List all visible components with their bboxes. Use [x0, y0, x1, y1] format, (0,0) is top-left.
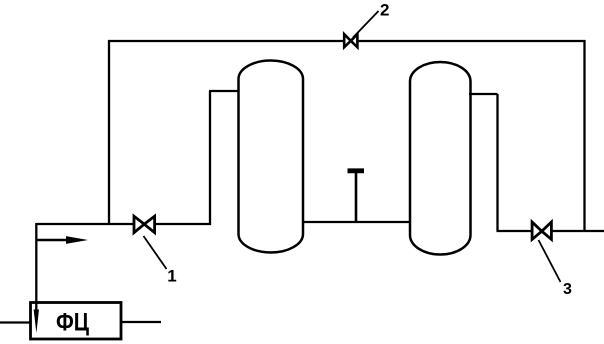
wire: line between vessels	[302, 221, 411, 223]
leader line for label 3	[539, 240, 561, 282]
arrow: flow direction arrow to the right	[36, 236, 88, 244]
component: FC (filter-centrifuge) box	[31, 303, 122, 340]
valve 1	[134, 216, 155, 232]
wire: right bypass vertical line	[583, 40, 585, 231]
wire: top bypass horizontal line	[108, 40, 586, 42]
wire: riser pipe into left vessel	[209, 91, 240, 225]
svg-text:ФЦ: ФЦ	[56, 309, 90, 337]
svg-text:3: 3	[563, 281, 572, 298]
vessel: right adsorber column	[410, 62, 471, 255]
wire: line right of FC box	[121, 321, 161, 323]
leader line for label 1	[144, 236, 167, 269]
svg-text:2: 2	[380, 0, 389, 19]
svg-text:1: 1	[167, 266, 176, 285]
valve 2	[344, 34, 357, 47]
arrow: down arrow into FC box	[34, 302, 39, 333]
wire: feed horizontal line through valve 1	[36, 223, 211, 225]
leader line for label 2	[353, 11, 379, 38]
valve 3	[532, 222, 551, 239]
vessel: left adsorber column	[239, 61, 304, 253]
fitting: T-shaped stub between vessels	[348, 170, 365, 222]
wire: bottom right outlet line through valve 3	[497, 230, 604, 232]
wire: feed vertical drop to FC box	[35, 223, 37, 312]
wire: line left of FC box	[0, 321, 31, 323]
wire: right vessel top outlet	[469, 94, 498, 231]
wire: left bypass vertical line	[108, 40, 110, 224]
